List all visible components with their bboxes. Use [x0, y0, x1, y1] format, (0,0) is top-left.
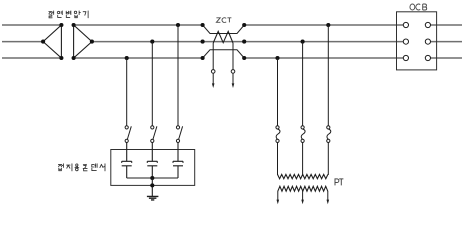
capacitor C2 — [147, 143, 157, 179]
fuse cutout F2 — [301, 126, 305, 143]
서 — [100, 164, 105, 171]
wire ZCT secondary lead k — [212, 43, 214, 84]
capacitor C3 — [173, 143, 183, 179]
capacitor C1 — [122, 143, 132, 179]
OCB contact circles — [403, 22, 430, 60]
wire ZCT top phase bend — [203, 25, 245, 34]
OCB breaker box — [397, 12, 437, 70]
PT secondary winding zigzag — [278, 186, 328, 191]
arrow a — [277, 200, 280, 205]
wire PT leg 1 upper — [277, 58, 279, 126]
node dot capacitor star point — [150, 176, 154, 180]
wire PT leg 2 lower — [302, 143, 304, 176]
PT primary winding zigzag — [278, 174, 328, 178]
node dot tap PT leg 3 (top bus) — [326, 23, 330, 27]
node dot tap capacitor leg 3 (top bus) — [176, 23, 180, 27]
wire PT leg 3 upper — [327, 25, 329, 126]
node dot at box edge — [150, 183, 154, 187]
wire capacitor common bus — [127, 177, 178, 179]
node dots ZCT — [201, 23, 247, 60]
압 — [74, 11, 80, 18]
ZCT zero-phase CT winding zigzag — [213, 31, 233, 43]
wire bus phase T (bottom, y=58) — [2, 57, 462, 59]
node dot tap PT leg 1 (bottom bus) — [275, 56, 279, 60]
절 — [49, 11, 54, 18]
node dot tap capacitor leg 1 (bottom bus) — [125, 56, 129, 60]
transformer T1 secondary delta winding — [74, 25, 92, 58]
transformer T1 primary delta winding — [43, 25, 61, 58]
기 — [83, 11, 88, 18]
wire bus phase S (middle, y=41.6) — [2, 41, 462, 43]
wire PT secondary lead a — [277, 191, 279, 200]
wire capacitor leg 2 upper — [151, 42, 153, 126]
wire PT leg 1 lower — [277, 143, 279, 176]
node dot tap capacitor leg 2 (middle bus) — [150, 40, 154, 44]
OCB label — [410, 4, 427, 10]
label 절연변압기 (isolation transformer) — [49, 11, 88, 18]
wire capacitor leg 1 upper — [126, 58, 128, 126]
연 — [57, 11, 62, 18]
wire capacitor leg 3 upper — [177, 25, 179, 126]
disconnect switch S2 — [151, 126, 157, 143]
wire ZCT bottom phase bend — [203, 50, 245, 58]
arrow l down — [232, 83, 235, 88]
지 — [67, 164, 72, 171]
변 — [66, 11, 71, 18]
node dot tap PT leg 2 (middle bus) — [301, 40, 305, 44]
capacitor bank box — [111, 150, 195, 186]
덴 — [92, 164, 97, 171]
disconnect switch S3 — [176, 126, 182, 143]
접 — [58, 164, 63, 171]
node dots transformer vertices — [41, 23, 94, 60]
콘 — [83, 164, 87, 170]
wire PT secondary lead c — [327, 191, 329, 200]
wire ZCT secondary lead l — [232, 43, 234, 84]
wire PT secondary lead b — [302, 191, 304, 200]
wire PT leg 3 lower — [327, 143, 329, 176]
용 — [75, 164, 79, 171]
arrow c — [327, 200, 330, 205]
wire bus phase R (top, y=25) — [2, 24, 462, 26]
fuse cutout F1 — [276, 126, 280, 143]
wire PT leg 2 upper — [302, 42, 304, 126]
wire to ground — [151, 178, 153, 196]
disconnect switch S1 — [125, 126, 131, 143]
ground symbol — [147, 196, 159, 200]
terminal circle k — [211, 70, 215, 74]
label 접지용콘덴서 (grounding capacitor) — [58, 164, 105, 171]
PT label — [335, 179, 343, 186]
arrow b — [301, 200, 304, 205]
terminal circle l — [231, 70, 235, 74]
arrow k down — [212, 83, 215, 88]
ZCT label — [216, 18, 231, 23]
fuse cutout F3 — [327, 126, 331, 143]
